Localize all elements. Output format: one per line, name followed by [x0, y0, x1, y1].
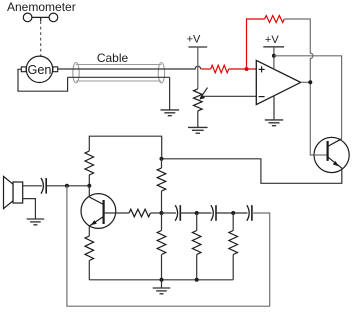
generator Gen — [26, 56, 52, 82]
wire: Gen shield return — [18, 69, 68, 91]
wire: coupling cap to node A — [46, 185, 89, 187]
svg-text:+V: +V — [187, 34, 201, 46]
node D — [160, 211, 164, 215]
wire: +V to potentiometer — [197, 47, 199, 89]
wire: C3 to feedback loop — [67, 186, 270, 306]
node: rail junction 2 — [195, 278, 199, 282]
wire (red): resistor to noninverting input — [229, 68, 257, 70]
transistor Q2 — [314, 137, 349, 172]
anemometer cups — [23, 13, 57, 22]
wire: Q2 emitter down and return — [162, 159, 342, 184]
wire: bottom rail — [89, 279, 233, 281]
node: feedback junction (red) — [245, 67, 249, 71]
transistor Q1 — [81, 194, 116, 229]
op-amp U1 — [256, 60, 300, 104]
wire: wiper to op-amp inverting input — [203, 95, 256, 97]
node: rail junction 1 — [160, 278, 164, 282]
capacitor C3 — [247, 205, 249, 221]
ground (bottom rail) — [153, 287, 171, 289]
node C: bias junction — [160, 157, 164, 161]
wire: +V to op-amp power pin — [273, 47, 275, 69]
wire (red): signal to input resistor — [201, 68, 211, 70]
wire: +V to transistor collector — [274, 56, 342, 139]
resistor: node F to rail — [232, 213, 234, 231]
anemometer shaft (dashed) — [40, 21, 42, 56]
wire to node F — [216, 212, 248, 214]
wire: shield to ground — [169, 77, 171, 110]
wire: rail to ground — [161, 280, 163, 288]
speaker — [13, 182, 23, 203]
wire to node E — [180, 212, 211, 214]
wire (red): junction up to feedback resistor — [247, 19, 265, 69]
wire: Q1 collector up — [88, 186, 90, 197]
resistor R (collector load) — [85, 151, 94, 175]
svg-text:+V: +V — [265, 34, 279, 46]
ground (potentiometer) — [188, 126, 208, 128]
cable shield cylinder — [73, 62, 165, 82]
node B: feedback loop junction — [65, 184, 69, 188]
resistor (base) horizontal — [104, 212, 129, 214]
wire: top rail — [89, 136, 161, 159]
wire: pot to ground — [197, 111, 199, 127]
node E — [195, 211, 199, 215]
ground (cable shield) — [161, 109, 180, 111]
node: output junction — [308, 80, 312, 84]
wire: op-amp ground pin — [273, 96, 275, 120]
svg-text:Gen: Gen — [28, 63, 52, 77]
resistor: node C to node D — [161, 159, 163, 168]
wire: op-amp output — [301, 81, 311, 83]
svg-text:Cable: Cable — [97, 51, 129, 65]
ground (op-amp) — [265, 119, 283, 121]
wire+resistor: Q1 emitter — [88, 226, 90, 236]
capacitor (coupling) — [41, 178, 43, 194]
Gen right terminal — [53, 67, 58, 72]
Gen left terminal — [21, 67, 26, 72]
svg-text:Anemometer: Anemometer — [7, 0, 76, 14]
wire: speaker top to cap — [23, 185, 42, 187]
node: +V branch — [272, 54, 276, 58]
node F — [231, 211, 235, 215]
node A: collector junction — [87, 184, 91, 188]
wire: speaker bottom to ground — [23, 199, 36, 219]
resistor: node D to rail — [161, 213, 163, 231]
potentiometer R (bias) — [194, 89, 203, 111]
wire: cable shield conductor — [68, 76, 170, 78]
resistor (red, feedback) — [265, 16, 285, 23]
resistor (red, input) — [211, 65, 229, 73]
capacitor C2 — [211, 205, 213, 221]
resistor: node E to rail — [196, 213, 198, 231]
ground (speaker) — [27, 218, 45, 220]
potentiometer wiper arrow — [200, 88, 207, 99]
wire: feedback resistor to output (gray) — [284, 19, 314, 155]
capacitor C1 — [162, 212, 177, 214]
wire: signal conductor with hop over +V — [58, 66, 201, 69]
